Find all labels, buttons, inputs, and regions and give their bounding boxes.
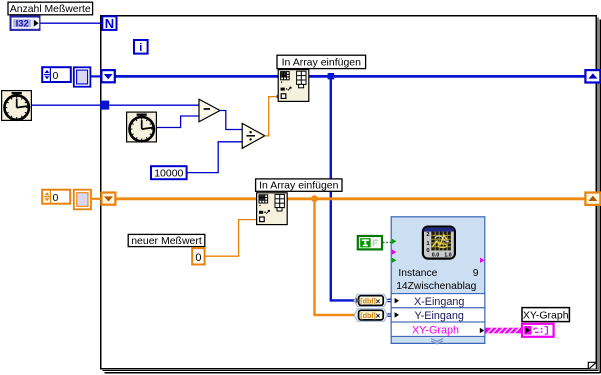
wire: constant 0 to insert-into-array 2 element input (205, 220, 256, 257)
svg-text:×: × (376, 311, 381, 320)
express VI input arrow (green, bottom) (392, 258, 397, 263)
for-loop shadow line 1 (right+bottom offset) (103, 18, 599, 372)
svg-text:[dbl]: [dbl] (360, 311, 376, 320)
for-loop corner fold (dog-ear) (588, 362, 596, 369)
svg-text:XY-Graph: XY-Graph (523, 309, 569, 321)
numeric constant 0 (neuer Messwert) (192, 248, 204, 264)
svg-text:×: × (376, 297, 381, 306)
stub: X converter to express VI (387, 299, 391, 301)
coercion dot on insert-into-array 1 (277, 95, 280, 98)
express VI body (Instance 9 / 14Zwischenablag) (391, 217, 485, 344)
junction: blue array branch (328, 73, 335, 79)
wire: boolean constant to express VI (dotted green) (383, 241, 391, 243)
express VI output arrow (magenta, right) (480, 258, 485, 263)
svg-text:In Array einfügen: In Array einfügen (259, 180, 339, 192)
function: In Array einfuegen 1 (insert into array) (278, 70, 309, 102)
express VI icon (XY graph) (423, 227, 455, 259)
array constant (DBL, empty) index spinner (42, 190, 70, 204)
express VI row X-Eingang (391, 294, 485, 308)
svg-text:[dbl]: [dbl] (360, 297, 376, 306)
svg-text:I32: I32 (16, 18, 29, 29)
label: In Array einfuegen (upper) (277, 55, 366, 68)
svg-text:In Array einfügen: In Array einfügen (282, 57, 362, 69)
tunnel (blue solid square) on loop border (100, 101, 109, 110)
for-loop border (101, 16, 597, 369)
svg-text:neuer Meßwert: neuer Meßwert (131, 235, 202, 247)
express VI row Y-Eingang (391, 308, 485, 322)
wire: I32 control to N terminal (40, 22, 102, 24)
converter: to dynamic data (X input) (354, 294, 387, 306)
control terminal I32 (Anzahl Messwerte) (10, 16, 39, 30)
svg-text:0: 0 (195, 252, 201, 264)
wire: outer clock to loop tunnel (32, 104, 100, 106)
array constant (I32, empty) element frame (74, 67, 91, 86)
express VI input arrow (magenta, middle) (392, 249, 397, 254)
svg-text:1.0: 1.0 (444, 252, 452, 258)
svg-text:10000: 10000 (154, 167, 183, 179)
wire: inner clock to subtract bottom input (157, 116, 200, 128)
svg-text:0: 0 (426, 248, 429, 254)
count terminal N (102, 16, 116, 31)
svg-text:0: 0 (53, 70, 59, 82)
shift register right (blue, up arrow) (585, 70, 600, 82)
array constant (DBL, empty) element frame (74, 190, 91, 210)
svg-text:N: N (105, 16, 114, 31)
svg-text:X-Eingang: X-Eingang (414, 296, 464, 308)
express VI collapse chevron bar (431, 339, 443, 344)
shift register left (orange, down arrow) (101, 193, 115, 205)
shift register right (orange, up arrow) (585, 193, 600, 205)
clock: Tick Count ms (outside loop) (2, 91, 32, 121)
junction: orange array branch (311, 195, 318, 202)
wire: DBL array constant to left shift register (91, 198, 101, 200)
function: In Array einfuegen 2 (insert into array) (257, 193, 288, 225)
svg-text:2: 2 (426, 232, 429, 238)
stub: Y converter to express VI (387, 314, 391, 316)
label: Anzahl Messwerte (8, 2, 93, 15)
wire: 10000 to divide bottom input (187, 142, 243, 173)
svg-text:0: 0 (53, 192, 59, 204)
express VI row XY-Graph (391, 322, 485, 337)
clock: Tick Count ms (inside loop) (127, 112, 157, 142)
for-loop shadow line 2 (right+bottom offset) (105, 20, 601, 374)
wire: I32 array constant to left shift register (90, 75, 101, 77)
wire: orange array branch vertical down (313, 199, 315, 315)
wire: blue array branch vertical down (330, 76, 332, 300)
wire: orange array main horizontal (shift register to shift register) (115, 197, 587, 200)
svg-text:Anzahl Meßwerte: Anzahl Meßwerte (10, 4, 91, 15)
wire: blue array main horizontal (shift register to shift register) (114, 75, 587, 78)
converter: to dynamic data (Y input) (354, 309, 387, 321)
wire: subtract output to divide top input (220, 111, 243, 130)
svg-text:0.0: 0.0 (432, 252, 440, 258)
numeric constant 10000 (151, 166, 187, 179)
divide function (242, 123, 265, 148)
label: neuer Messwert (128, 234, 205, 247)
shift register left (blue, down arrow) (101, 70, 114, 82)
label: XY-Graph (522, 308, 569, 322)
svg-text:9: 9 (473, 268, 479, 279)
svg-text:XY-Graph: XY-Graph (412, 325, 459, 337)
express VI input arrow (green, top) (392, 239, 397, 244)
svg-text:i: i (139, 42, 142, 54)
wire: divide output (DBL) to insert-into-array 1 element input (265, 97, 278, 136)
wire: dynamic data (magenta hatched) express VI to XY-Graph terminal (485, 328, 522, 334)
indicator terminal XY-Graph (522, 324, 554, 337)
svg-text:Y-Eingang: Y-Eingang (414, 310, 463, 322)
boolean constant TRUE (358, 236, 382, 249)
subtract function (199, 99, 220, 122)
wire: orange array branch to Y-Eingang converter (313, 314, 356, 316)
label: In Array einfuegen (lower) (256, 179, 342, 192)
wire: blue array branch to X-Eingang converter (330, 299, 356, 301)
express VI caption text (396, 268, 479, 292)
svg-text:14Zwischenablag: 14Zwischenablag (396, 281, 476, 292)
iteration terminal i (134, 40, 148, 54)
svg-text:Instance: Instance (398, 268, 437, 279)
array constant (I32, empty) index spinner (42, 67, 71, 82)
wire: tunnel to subtract top input (109, 104, 199, 106)
